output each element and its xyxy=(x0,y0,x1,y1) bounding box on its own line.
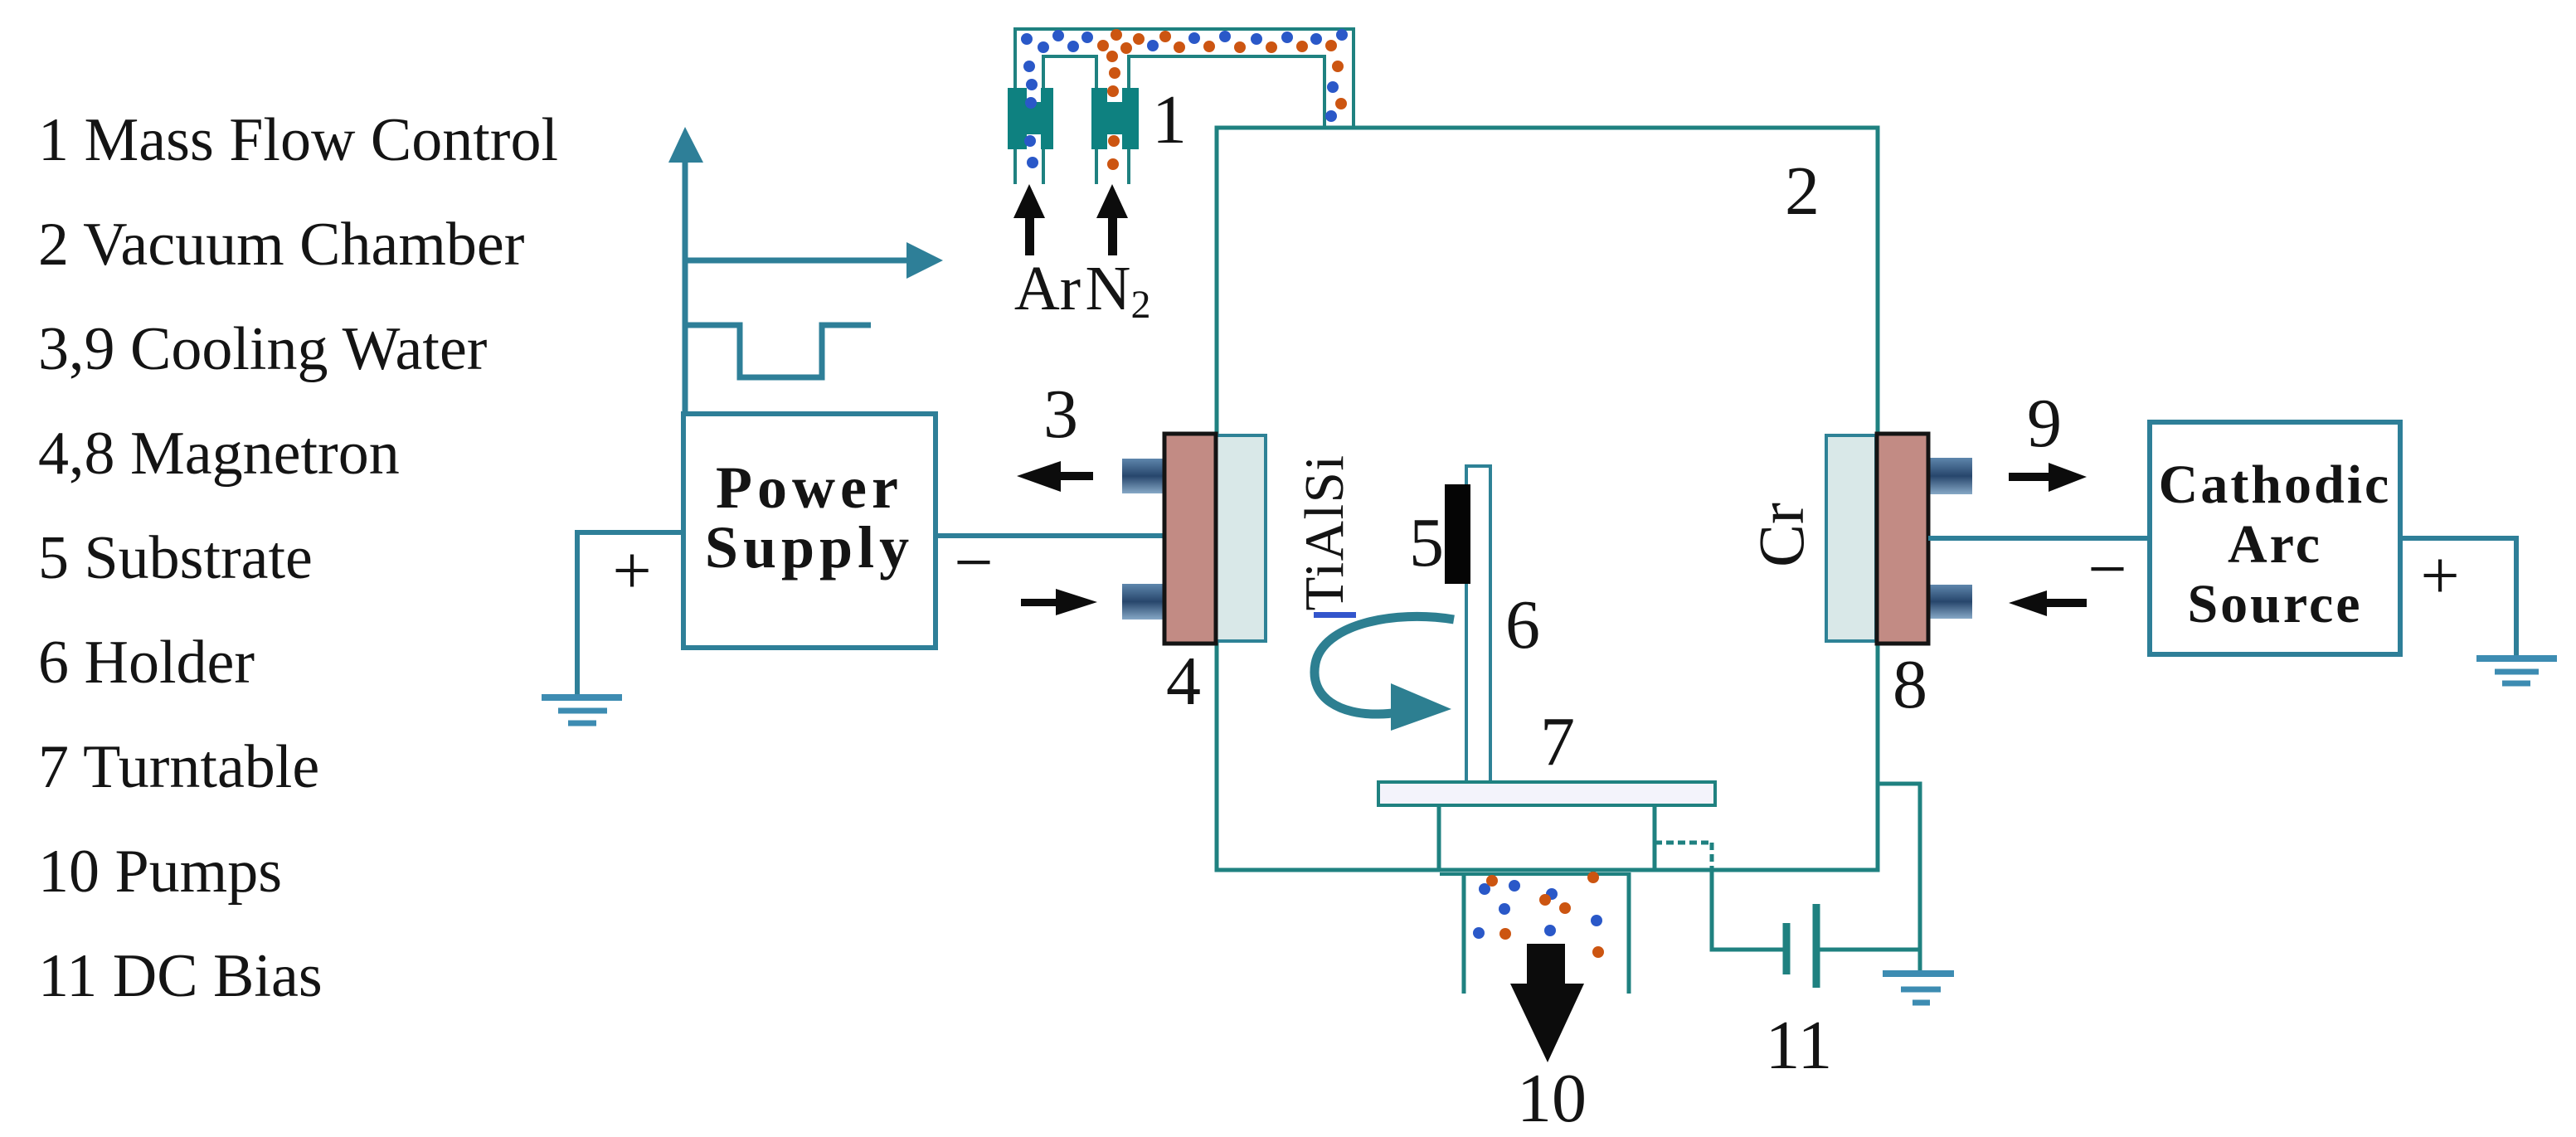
svg-text:8: 8 xyxy=(1893,646,1927,723)
svg-text:Arc: Arc xyxy=(2228,514,2322,575)
svg-text:9: 9 xyxy=(2027,385,2062,462)
svg-text:5 Substrate: 5 Substrate xyxy=(38,524,313,592)
svg-text:10 Pumps: 10 Pumps xyxy=(38,838,282,906)
svg-text:7 Turntable: 7 Turntable xyxy=(38,733,319,801)
svg-text:5: 5 xyxy=(1409,504,1444,581)
svg-text:1: 1 xyxy=(1152,81,1187,158)
svg-text:11: 11 xyxy=(1766,1007,1833,1084)
svg-text:Source: Source xyxy=(2187,574,2362,634)
svg-text:−: − xyxy=(954,524,993,601)
svg-text:Cr: Cr xyxy=(1745,503,1817,567)
svg-text:Power: Power xyxy=(716,454,903,521)
svg-text:6 Holder: 6 Holder xyxy=(38,629,255,697)
svg-text:1 Mass Flow Control: 1 Mass Flow Control xyxy=(38,106,558,174)
svg-text:+: + xyxy=(2420,537,2459,615)
svg-text:4,8 Magnetron: 4,8 Magnetron xyxy=(38,420,400,488)
svg-text:Supply: Supply xyxy=(705,514,914,581)
svg-text:10: 10 xyxy=(1517,1060,1587,1137)
svg-text:3: 3 xyxy=(1043,376,1078,453)
svg-text:2 Vacuum Chamber: 2 Vacuum Chamber xyxy=(38,211,524,279)
svg-text:2: 2 xyxy=(1785,153,1820,230)
svg-text:3,9 Cooling Water: 3,9 Cooling Water xyxy=(38,315,487,383)
svg-text:Ar: Ar xyxy=(1014,254,1081,323)
svg-text:+: + xyxy=(612,532,651,610)
svg-text:11 DC Bias: 11 DC Bias xyxy=(38,942,323,1010)
svg-text:TiAlSi: TiAlSi xyxy=(1294,454,1355,610)
svg-text:Cathodic: Cathodic xyxy=(2159,454,2392,515)
svg-text:6: 6 xyxy=(1505,586,1540,663)
svg-text:−: − xyxy=(2088,531,2126,608)
svg-text:7: 7 xyxy=(1540,703,1575,780)
svg-text:4: 4 xyxy=(1166,643,1201,720)
